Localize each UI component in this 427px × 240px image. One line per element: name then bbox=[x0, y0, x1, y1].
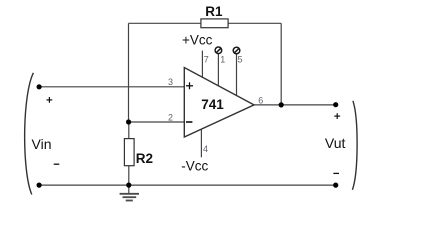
svg-text:741: 741 bbox=[201, 97, 224, 112]
Vut plus mark bbox=[334, 113, 340, 119]
op-amp plus input mark bbox=[186, 82, 193, 89]
terminal dot Vut- bbox=[333, 183, 338, 188]
resistor R2 bbox=[124, 139, 134, 166]
wire feedback left vertical bbox=[128, 23, 130, 122]
Vin minus mark bbox=[54, 163, 60, 165]
terminal dot Vin+ bbox=[37, 84, 42, 89]
resistor R1 bbox=[201, 19, 228, 28]
wire output bbox=[254, 104, 336, 106]
svg-text:2: 2 bbox=[168, 112, 173, 122]
wire bottom rail bbox=[39, 184, 336, 186]
terminal dot Vin- bbox=[37, 183, 42, 188]
svg-text:R1: R1 bbox=[205, 4, 223, 19]
left bracket (Vin) bbox=[25, 73, 34, 195]
op-amp U1 741 triangle bbox=[184, 68, 254, 138]
wire top feedback rail bbox=[129, 22, 282, 24]
wire pin4 bbox=[200, 128, 202, 157]
NC terminal pin5 bbox=[233, 47, 240, 54]
Vin plus mark bbox=[47, 97, 53, 103]
svg-text:+Vcc: +Vcc bbox=[182, 32, 213, 47]
op-amp minus input mark bbox=[186, 121, 192, 123]
wire R2 branch vertical bbox=[128, 122, 130, 185]
svg-text:7: 7 bbox=[204, 54, 209, 64]
Vut minus mark bbox=[333, 172, 339, 174]
terminal dot Vut+ bbox=[333, 102, 338, 107]
wire pin1 bbox=[217, 54, 219, 88]
svg-text:R2: R2 bbox=[136, 151, 153, 166]
right bracket (Vut) bbox=[352, 101, 357, 190]
wire pin3 non-inverting input bbox=[39, 86, 185, 88]
NC terminal pin1 bbox=[215, 47, 222, 54]
svg-text:6: 6 bbox=[258, 96, 263, 106]
wire pin7 bbox=[201, 51, 203, 80]
wire pin5 bbox=[236, 54, 238, 98]
junction dot ground rail bbox=[126, 183, 131, 188]
ground bbox=[120, 185, 139, 200]
wire pin2 inverting input bbox=[129, 121, 186, 123]
wire right vertical from R1 rail to output bbox=[280, 23, 282, 105]
junction dot pin2/feedback bbox=[126, 119, 131, 124]
svg-text:Vut: Vut bbox=[325, 135, 346, 151]
svg-text:5: 5 bbox=[238, 54, 243, 64]
svg-text:Vin: Vin bbox=[32, 136, 52, 152]
svg-text:3: 3 bbox=[168, 77, 173, 87]
svg-text:1: 1 bbox=[220, 54, 225, 64]
svg-text:4: 4 bbox=[203, 144, 208, 154]
junction dot output/feedback bbox=[279, 102, 284, 107]
svg-text:-Vcc: -Vcc bbox=[181, 158, 208, 173]
